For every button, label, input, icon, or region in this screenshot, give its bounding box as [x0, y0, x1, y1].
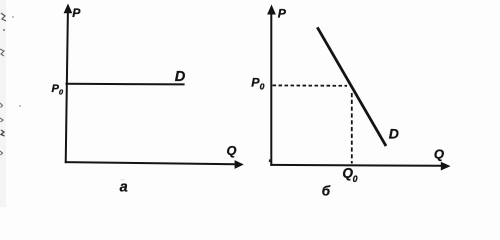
scan speck left edge 1: [0, 103, 3, 108]
panel a: vertical axis arrowhead: [64, 4, 73, 14]
scan speck left edge 4: [0, 151, 3, 155]
panel a: demand curve D (horizontal line, perfectly elastic): [66, 83, 185, 86]
svg-text:P: P: [72, 6, 81, 20]
tick nub on panel b vertical axis: [269, 159, 271, 162]
svg-text:D: D: [389, 126, 399, 142]
scan faint dot A: [19, 105, 21, 107]
scan speck left edge 3: [1, 130, 5, 136]
svg-text:Q: Q: [227, 143, 237, 158]
svg-text:б: б: [322, 183, 331, 198]
panel a: horizontal axis (Q axis): [65, 162, 236, 164]
svg-text:0: 0: [260, 82, 265, 92]
panel b: dashed horizontal guide line at P0: [273, 84, 348, 86]
panel b: vertical axis (P axis): [270, 14, 272, 166]
panel b: dashed vertical guide line at Q0: [351, 93, 353, 164]
svg-text:Q: Q: [434, 146, 444, 161]
scan speck dot: [3, 29, 5, 31]
svg-text:а: а: [120, 179, 128, 195]
scan speck top-left squiggle: [1, 13, 6, 21]
panel b: horizontal axis arrowhead: [441, 162, 451, 171]
panel b: vertical axis arrowhead: [267, 5, 276, 15]
panel a: vertical axis (P axis): [66, 11, 68, 163]
panel b: horizontal axis (Q axis): [270, 164, 441, 167]
scan speck squiggle mid-left: [0, 49, 4, 56]
scan smudge above caption a: [120, 179, 125, 181]
panel b: demand curve D (steep downward line): [317, 27, 386, 146]
svg-text:P: P: [278, 7, 287, 21]
scan faint dot B: [12, 16, 14, 18]
left paper edge shading: [0, 0, 6, 207]
svg-text:D: D: [175, 69, 186, 85]
panel a: horizontal axis arrowhead: [235, 160, 244, 169]
scan speck left edge 2: [0, 118, 3, 122]
svg-text:0: 0: [353, 174, 358, 184]
